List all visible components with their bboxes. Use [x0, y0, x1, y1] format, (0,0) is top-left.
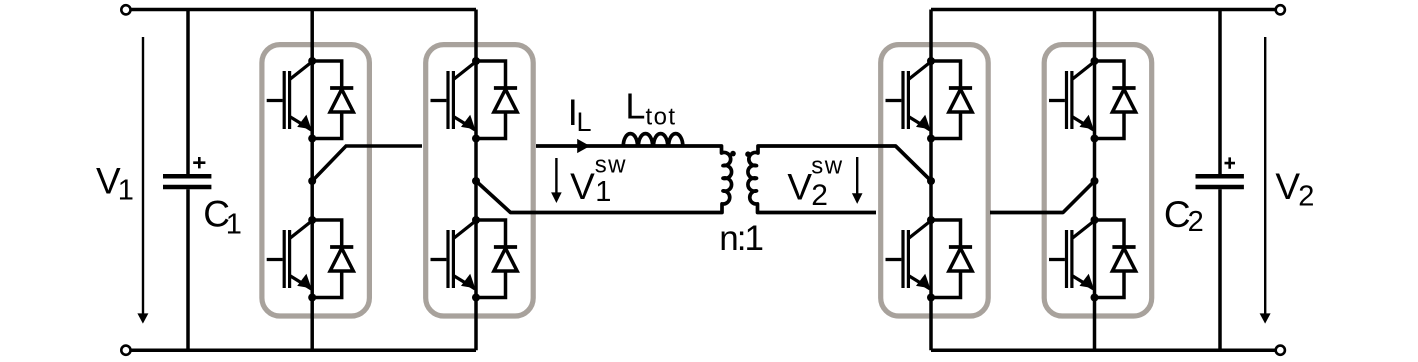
svg-text:V: V [787, 167, 812, 208]
svg-text:sw: sw [595, 152, 627, 179]
svg-text:V: V [570, 166, 595, 207]
svg-text:n:1: n:1 [719, 219, 762, 258]
svg-text:2: 2 [811, 179, 828, 212]
svg-text:sw: sw [811, 152, 843, 179]
svg-text:1: 1 [118, 175, 134, 207]
svg-text:2: 2 [1188, 206, 1204, 238]
svg-text:tot: tot [646, 104, 677, 131]
svg-text:1: 1 [226, 209, 242, 241]
svg-text:2: 2 [1298, 181, 1314, 213]
svg-text:V: V [1275, 166, 1300, 207]
svg-text:L: L [577, 107, 592, 137]
svg-text:L: L [625, 86, 645, 127]
svg-text:1: 1 [595, 176, 611, 208]
